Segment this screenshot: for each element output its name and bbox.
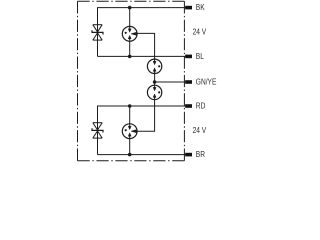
TVS suppressor diode (top, between BK and BL): [92, 25, 103, 40]
svg-text:BR: BR: [196, 149, 205, 159]
junction node on RD rail: [128, 104, 132, 108]
junction node on BR rail: [128, 153, 132, 157]
wire from G3 to G4 third electrode: [137, 100, 155, 132]
TVS suppressor diode (bottom, between RD and BR): [92, 123, 103, 138]
gas discharge tube G1 (3-electrode, between BK and BL): [122, 8, 137, 57]
terminal BK: [185, 6, 192, 10]
svg-text:BK: BK: [196, 2, 205, 12]
terminal GN/YE: [185, 80, 192, 84]
gas discharge tube G3 (2-electrode, from GN/YE): [147, 82, 161, 100]
gas discharge tube G4 (3-electrode, between RD and BR): [122, 106, 137, 155]
svg-text:GN/YE: GN/YE: [196, 77, 217, 87]
svg-text:24 V: 24 V: [193, 27, 207, 37]
junction node on GN/YE rail: [153, 80, 157, 84]
enclosure outline (dash-dot device boundary): [78, 1, 185, 160]
terminal RD: [185, 104, 192, 108]
wire BK (top rail): [98, 8, 189, 57]
wire BR rail: [98, 154, 189, 156]
terminal BR: [185, 153, 192, 157]
junction node on BL rail: [128, 55, 132, 59]
svg-text:BL: BL: [196, 51, 204, 61]
wire GN/YE rail: [155, 81, 188, 83]
svg-text:24 V: 24 V: [193, 125, 207, 135]
gas discharge tube G2 (2-electrode, to GN/YE): [147, 59, 161, 82]
svg-text:RD: RD: [196, 101, 206, 111]
wire BL rail: [98, 55, 189, 57]
junction node on BK rail: [128, 6, 132, 10]
terminal BL: [185, 55, 192, 59]
wire RD rail: [98, 106, 189, 155]
wire from G1 third electrode to G2: [137, 33, 155, 59]
